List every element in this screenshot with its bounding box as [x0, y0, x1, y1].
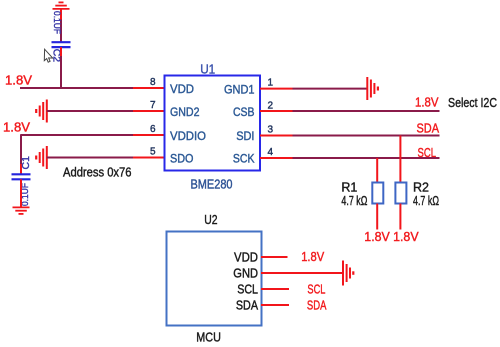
ground on U1 pin 7 [36, 100, 47, 123]
wire U1 pin 4 (SCK / SCL net) [260, 157, 440, 159]
svg-text:U1: U1 [200, 62, 215, 76]
mouse cursor [44, 49, 52, 62]
svg-text:SCK: SCK [233, 152, 255, 166]
wire C2 bottom lead [60, 47, 62, 88]
svg-text:C1: C1 [20, 156, 32, 170]
svg-text:5: 5 [150, 147, 156, 158]
ground on U1 pin 1 [367, 77, 378, 100]
svg-text:GND: GND [233, 266, 258, 280]
svg-text:SDA: SDA [236, 298, 259, 312]
svg-text:SDO: SDO [170, 151, 194, 165]
wire U2 GND to ground [261, 272, 343, 274]
wire U1 pin 3 (SDI / SDA net) [260, 135, 440, 137]
svg-text:SDI: SDI [236, 129, 254, 143]
svg-text:8: 8 [150, 77, 156, 88]
wire C1 bottom lead [20, 179, 22, 207]
svg-text:BME280: BME280 [191, 178, 233, 192]
svg-text:0.1UF: 0.1UF [51, 11, 62, 34]
svg-text:VDDIO: VDDIO [170, 129, 206, 143]
svg-text:SDA: SDA [417, 121, 440, 136]
svg-text:4.7 kΩ: 4.7 kΩ [341, 194, 367, 208]
wire C2 top lead [60, 9, 62, 42]
ground on U1 pin 5 [36, 146, 47, 169]
wire ground to U1 pin 7 [47, 110, 165, 112]
svg-text:VDD: VDD [170, 82, 194, 96]
resistor R2 [395, 183, 406, 204]
svg-text:R2: R2 [413, 181, 429, 195]
svg-text:SDA: SDA [307, 297, 327, 312]
ground GND1 top (above C2) [53, 2, 70, 8]
wire R2 top lead (from SDA) [399, 136, 401, 183]
svg-text:6: 6 [150, 124, 156, 135]
wire U2 SCL stub [261, 288, 289, 290]
svg-text:1.8V: 1.8V [415, 94, 439, 109]
wire R1 bottom lead [376, 204, 378, 230]
wire 1.8V to U1 pin 8 [20, 87, 165, 89]
wire U2 VDD stub [261, 256, 288, 258]
IC U1 BME280 body [165, 76, 261, 171]
capacitor C2 [52, 42, 71, 47]
wire R2 bottom lead [399, 204, 401, 230]
wire U2 SDA stub [261, 304, 289, 306]
svg-text:U2: U2 [204, 212, 217, 227]
capacitor C1 [12, 174, 31, 179]
svg-text:MCU: MCU [196, 331, 221, 345]
svg-text:3: 3 [268, 125, 274, 136]
wire U1 pin 2 (CSB to 1.8V) [260, 110, 440, 112]
wire U1 pin 1 to ground [260, 88, 367, 90]
wire ground to U1 pin 5 [47, 157, 165, 159]
ground on U2 GND [343, 261, 353, 286]
svg-text:SCL: SCL [237, 282, 258, 296]
svg-text:7: 7 [150, 100, 156, 111]
svg-text:1.8V: 1.8V [301, 249, 324, 264]
svg-text:1.8V: 1.8V [364, 229, 390, 244]
svg-text:R1: R1 [341, 181, 357, 195]
svg-text:GND1: GND1 [224, 82, 255, 96]
svg-text:4: 4 [268, 147, 274, 158]
IC U2 MCU body [167, 232, 262, 326]
svg-text:2: 2 [268, 101, 274, 112]
svg-text:Address 0x76: Address 0x76 [63, 165, 132, 180]
svg-text:CSB: CSB [233, 105, 255, 119]
svg-text:Select I2C: Select I2C [448, 95, 497, 110]
svg-text:SCL: SCL [307, 281, 325, 296]
wire C1 top lead [20, 134, 22, 173]
svg-text:1.8V: 1.8V [5, 73, 32, 88]
wire R1 top lead (from SCL) [376, 158, 378, 183]
ground below C1 [13, 207, 30, 214]
resistor R1 [372, 183, 383, 204]
svg-text:1: 1 [268, 78, 274, 89]
svg-text:4.7 kΩ: 4.7 kΩ [413, 194, 439, 208]
wire 1.8V to U1 pin 6 [21, 134, 165, 136]
svg-text:VDD: VDD [234, 250, 258, 264]
svg-text:1.8V: 1.8V [3, 120, 30, 135]
svg-text:GND2: GND2 [170, 105, 200, 119]
svg-text:1.8V: 1.8V [393, 229, 419, 244]
